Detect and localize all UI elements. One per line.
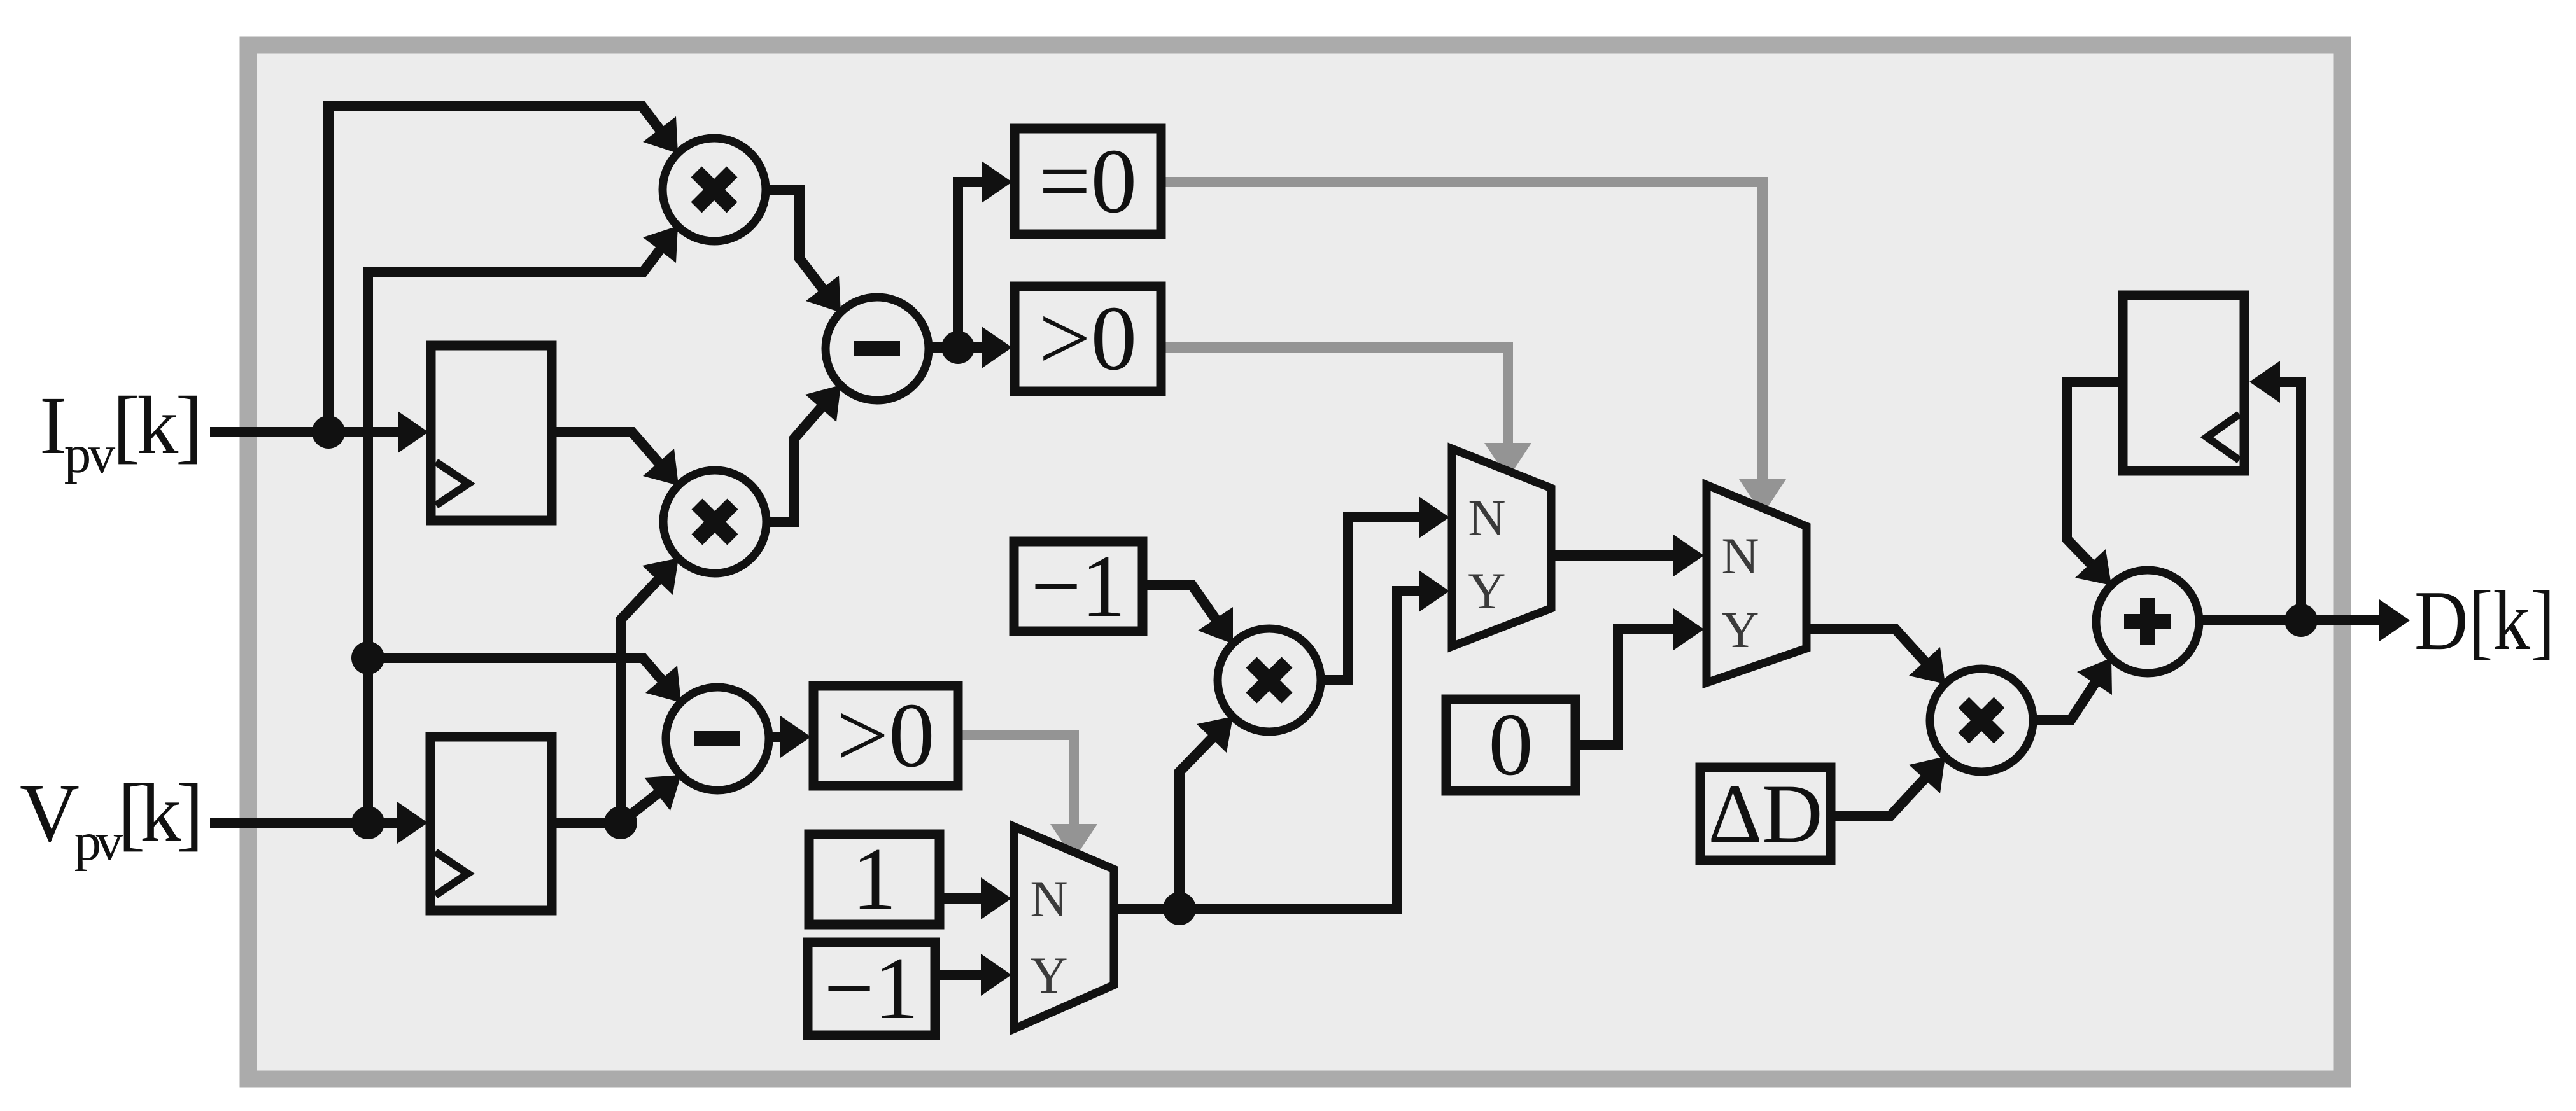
comparator block &gt;0 (delta P) <box>1015 286 1161 391</box>
svg-text:Vpv[k]: Vpv[k] <box>20 767 204 872</box>
input label Vpv[k] <box>20 767 204 872</box>
constant block -1 (lower) <box>808 939 935 1038</box>
wire node Vpv[k] branch to subtractor S2 top input <box>368 658 681 702</box>
svg-text:=0: =0 <box>1039 130 1137 232</box>
wire mux MX1 output to mux MX2 Y input <box>1114 570 1449 925</box>
svg-text:N: N <box>1721 527 1759 585</box>
gray control wire from =0 comparator to mux MX3 select <box>1161 182 1786 515</box>
gray control wire from >0 comparator to mux MX2 select <box>1161 347 1531 479</box>
svg-text:1: 1 <box>852 830 897 928</box>
svg-text:Y: Y <box>1030 946 1067 1004</box>
svg-text:>0: >0 <box>836 685 934 786</box>
wire multiplier M2 output to subtractor S1 bottom input <box>766 385 841 522</box>
gray control wire from lower >0 comparator to mux MX1 select <box>958 735 1097 860</box>
constant block -1 (top) <box>1014 537 1143 636</box>
svg-text:Y: Y <box>1721 601 1759 659</box>
wire register Z3 output to adder A1 top input <box>2067 382 2123 585</box>
svg-text:−1: −1 <box>824 939 919 1038</box>
svg-text:Ipv[k]: Ipv[k] <box>39 380 203 484</box>
wire multiplier M3 output to mux MX2 N input <box>1321 496 1449 680</box>
mux MX1 selects 1 or -1 by sign of delta V <box>1014 827 1114 1029</box>
wire Ipv[k] input into register Z1 <box>210 411 428 453</box>
comparator block &gt;0 (delta V) <box>813 685 958 786</box>
wire multiplier M4 output to adder A1 bottom input <box>2033 658 2112 720</box>
multiplier M1 computes Ipv[k]*Vpv[k] <box>663 138 766 241</box>
svg-text:>0: >0 <box>1039 288 1137 389</box>
svg-text:−1: −1 <box>1031 537 1126 636</box>
wire Vpv[k] trunk up to multiplier M1 bottom input <box>351 226 678 823</box>
svg-text:D[k]: D[k] <box>2414 573 2555 667</box>
wire constant -1 to multiplier M3 top input <box>1143 585 1233 644</box>
wire adder A1 output to D[k] terminal <box>2199 599 2410 641</box>
multiplier M2 computes Ipv[k-1]*Vpv[k-1] <box>663 470 766 573</box>
wire constant 1 to mux MX1 N input <box>940 877 1011 919</box>
register Z3 delay for D[k] (mirrored) <box>2123 295 2244 471</box>
wire subtractor S2 output to comparator >0 lower block <box>769 716 811 758</box>
constant block 0 <box>1446 695 1575 794</box>
outer boundary frame of MPPT algorithm block <box>248 45 2342 1079</box>
wire D[k] feedback up into register Z3 <box>2249 361 2301 620</box>
svg-text:Y: Y <box>1468 562 1505 620</box>
wire register Z2 output to subtractor S2 bottom input <box>552 775 681 839</box>
output label D[k] <box>2414 573 2555 667</box>
svg-text:N: N <box>1468 489 1505 547</box>
wire mux MX2 output to mux MX3 N input <box>1551 535 1704 576</box>
input label Ipv[k] <box>39 380 203 484</box>
register Z2 delay for Vpv <box>430 737 552 911</box>
wire constant -1 lower to mux MX1 Y input <box>935 954 1011 996</box>
wire node dP up to comparator =0 block <box>958 161 1012 347</box>
svg-text:ΔD: ΔD <box>1708 767 1822 860</box>
wire subtractor S1 output to comparator >0 block <box>929 326 1012 368</box>
wire node mux MX1 output up to multiplier M3 bottom input <box>1179 716 1233 909</box>
register Z1 delay for Ipv <box>431 346 552 521</box>
subtractor S2 computes delta V <box>666 687 769 790</box>
mux MX3 selects 0 when delta P = 0 <box>1707 485 1806 683</box>
multiplier M4 multiply by DeltaD <box>1930 669 2033 772</box>
wire constant 0 to mux MX3 Y input <box>1575 608 1704 745</box>
constant block DeltaD step size <box>1700 767 1831 860</box>
multiplier M3 multiply by -1 <box>1218 629 1321 732</box>
mux MX2 selects slope direction by sign of delta P <box>1452 449 1551 646</box>
constant block 1 <box>809 830 940 928</box>
svg-text:0: 0 <box>1489 695 1533 794</box>
wire node Vpv[k-1] up to multiplier M2 bottom input <box>621 558 679 823</box>
wire Vpv[k] input into register Z2 <box>210 802 428 844</box>
wire multiplier M1 output to subtractor S1 top input <box>766 190 841 312</box>
wire Ipv[k] trunk up to multiplier M1 top input <box>328 106 678 432</box>
subtractor S1 computes delta P <box>826 297 929 400</box>
wire register Z1 output to multiplier M2 top input <box>552 432 679 486</box>
svg-text:N: N <box>1030 870 1067 928</box>
wire constant DeltaD to multiplier M4 bottom input <box>1831 757 1945 816</box>
comparator block =0 <box>1015 129 1161 234</box>
adder A1 computes D[k] <box>2096 570 2199 673</box>
wire mux MX3 output to multiplier M4 top input <box>1806 629 1945 684</box>
